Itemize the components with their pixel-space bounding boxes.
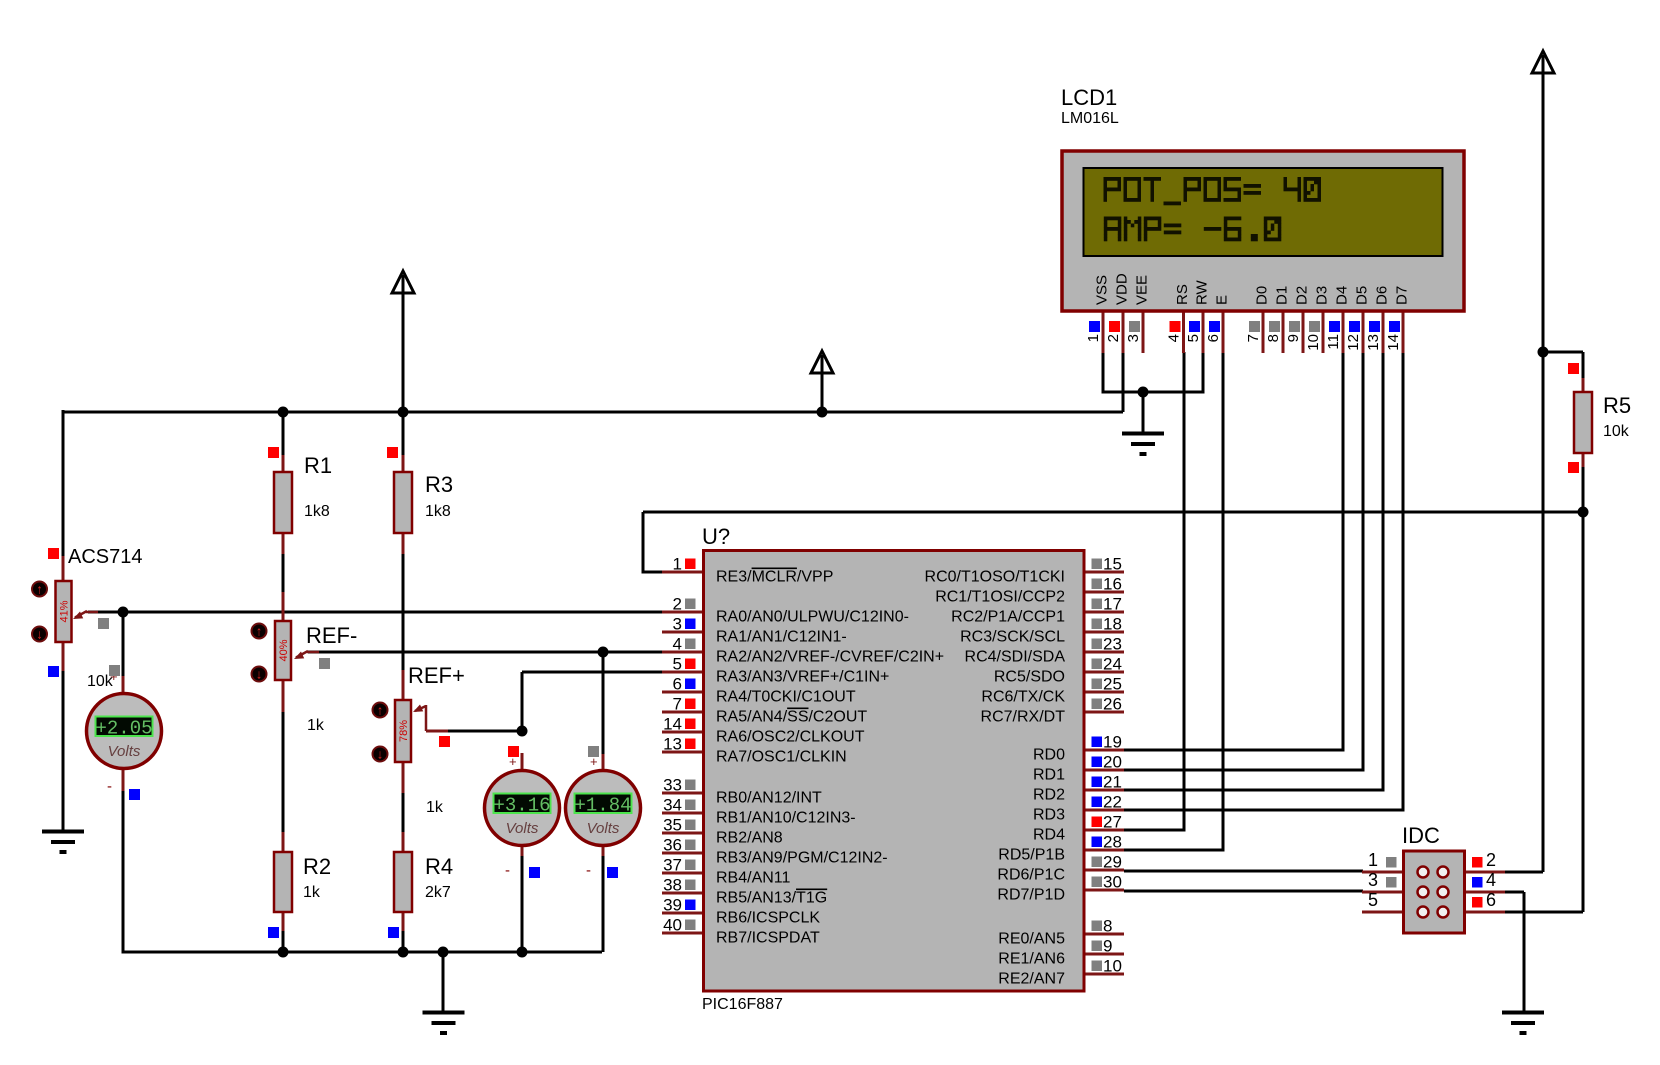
svg-text:10: 10 [1305,334,1322,351]
svg-text:-: - [505,862,510,879]
svg-text:15: 15 [1103,555,1122,574]
svg-text:36: 36 [663,836,682,855]
svg-text:PIC16F887: PIC16F887 [702,996,783,1013]
svg-text:4: 4 [1166,334,1183,342]
svg-text:E: E [1214,295,1231,305]
svg-text:24: 24 [1103,655,1122,674]
svg-text:Volts: Volts [506,820,539,837]
svg-text:5: 5 [673,655,682,674]
svg-text:22: 22 [1103,793,1122,812]
svg-text:3: 3 [1125,334,1142,342]
svg-text:IDC: IDC [1402,823,1440,848]
svg-text:1: 1 [1085,334,1102,342]
svg-text:30: 30 [1103,873,1122,892]
svg-text:23: 23 [1103,635,1122,654]
svg-text:RC7/RX/DT: RC7/RX/DT [981,709,1066,726]
svg-text:1: 1 [1368,850,1378,870]
svg-text:RD1: RD1 [1033,767,1065,784]
svg-text:10k: 10k [1603,423,1630,440]
svg-text:D2: D2 [1294,286,1311,305]
svg-text:41%: 41% [59,600,71,622]
svg-text:14: 14 [1385,334,1402,351]
svg-text:D6: D6 [1374,286,1391,305]
svg-text:RC3/SCK/SCL: RC3/SCK/SCL [960,629,1065,646]
svg-text:27: 27 [1103,813,1122,832]
svg-text:14: 14 [663,715,682,734]
svg-text:39: 39 [663,896,682,915]
svg-text:RA7/OSC1/CLKIN: RA7/OSC1/CLKIN [716,749,847,766]
svg-text:U?: U? [702,524,730,549]
svg-text:25: 25 [1103,675,1122,694]
svg-text:21: 21 [1103,773,1122,792]
svg-text:2: 2 [1105,334,1122,342]
svg-text:8: 8 [1265,334,1282,342]
svg-text:26: 26 [1103,695,1122,714]
svg-text:35: 35 [663,816,682,835]
svg-text:RB6/ICSPCLK: RB6/ICSPCLK [716,910,820,927]
svg-text:RA0/AN0/ULPWU/C12IN0-: RA0/AN0/ULPWU/C12IN0- [716,609,909,626]
svg-text:RC4/SDI/SDA: RC4/SDI/SDA [965,649,1066,666]
svg-text:RC6/TX/CK: RC6/TX/CK [981,689,1065,706]
svg-text:19: 19 [1103,733,1122,752]
svg-text:R1: R1 [304,453,332,478]
svg-text:RD3: RD3 [1033,807,1065,824]
svg-text:20: 20 [1103,753,1122,772]
svg-text:↑: ↑ [256,624,263,639]
svg-text:RC2/P1A/CCP1: RC2/P1A/CCP1 [951,609,1065,626]
svg-text:40%: 40% [278,639,290,661]
svg-text:R5: R5 [1603,393,1631,418]
svg-text:RD7/P1D: RD7/P1D [997,887,1065,904]
svg-text:1k: 1k [303,884,321,901]
svg-text:RA3/AN3/VREF+/C1IN+: RA3/AN3/VREF+/C1IN+ [716,669,889,686]
svg-text:Volts: Volts [587,820,620,837]
svg-text:1: 1 [673,555,682,574]
svg-text:7: 7 [673,695,682,714]
svg-text:10: 10 [1103,957,1122,976]
svg-text:2: 2 [673,595,682,614]
svg-text:3: 3 [1368,870,1378,890]
svg-text:+3.16: +3.16 [493,795,550,817]
svg-text:40: 40 [663,916,682,935]
svg-text:VSS: VSS [1094,275,1111,305]
svg-text:RB2/AN8: RB2/AN8 [716,830,783,847]
svg-text:6: 6 [1205,334,1222,342]
svg-text:29: 29 [1103,853,1122,872]
svg-text:17: 17 [1103,595,1122,614]
svg-text:↓: ↓ [377,747,384,762]
svg-text:VEE: VEE [1134,275,1151,305]
svg-text:D4: D4 [1334,286,1351,305]
svg-text:RA2/AN2/VREF-/CVREF/C2IN+: RA2/AN2/VREF-/CVREF/C2IN+ [716,649,944,666]
svg-text:4: 4 [1486,870,1496,890]
svg-text:↓: ↓ [36,627,43,642]
svg-text:RE2/AN7: RE2/AN7 [998,971,1065,988]
svg-text:ACS714: ACS714 [68,546,143,568]
svg-text:7: 7 [1245,334,1262,342]
svg-text:LM016L: LM016L [1061,110,1119,127]
svg-text:1k8: 1k8 [304,503,330,520]
svg-text:13: 13 [1365,334,1382,351]
svg-text:D5: D5 [1354,286,1371,305]
svg-text:D3: D3 [1314,286,1331,305]
svg-text:↑: ↑ [377,703,384,718]
svg-text:5: 5 [1185,334,1202,342]
svg-text:8: 8 [1103,917,1112,936]
svg-text:3: 3 [673,615,682,634]
svg-text:6: 6 [673,675,682,694]
svg-text:RA1/AN1/C12IN1-: RA1/AN1/C12IN1- [716,629,847,646]
svg-text:2: 2 [1486,850,1496,870]
svg-text:16: 16 [1103,575,1122,594]
svg-text:38: 38 [663,876,682,895]
svg-text:RB1/AN10/C12IN3-: RB1/AN10/C12IN3- [716,810,856,827]
svg-text:RD5/P1B: RD5/P1B [998,847,1065,864]
svg-text:13: 13 [663,735,682,754]
svg-text:-: - [107,778,112,795]
svg-text:RC1/T1OSI/CCP2: RC1/T1OSI/CCP2 [935,589,1065,606]
svg-text:28: 28 [1103,833,1122,852]
svg-text:D7: D7 [1394,286,1411,305]
svg-text:RA5/AN4/SS/C2OUT: RA5/AN4/SS/C2OUT [716,709,867,726]
svg-text:RW: RW [1194,279,1211,305]
svg-text:RD6/P1C: RD6/P1C [997,867,1065,884]
svg-text:18: 18 [1103,615,1122,634]
svg-text:RC5/SDO: RC5/SDO [994,669,1065,686]
svg-text:RC0/T1OSO/T1CKI: RC0/T1OSO/T1CKI [925,569,1065,586]
svg-text:R3: R3 [425,472,453,497]
svg-text:RB5/AN13/T1G: RB5/AN13/T1G [716,890,827,907]
svg-text:4: 4 [673,635,682,654]
svg-text:Volts: Volts [108,743,141,760]
svg-text:D0: D0 [1254,286,1271,305]
svg-text:RB0/AN12/INT: RB0/AN12/INT [716,790,822,807]
svg-text:RA4/T0CKI/C1OUT: RA4/T0CKI/C1OUT [716,689,856,706]
svg-text:1k: 1k [426,799,444,816]
svg-text:RE3/MCLR/VPP: RE3/MCLR/VPP [716,569,833,586]
svg-text:↓: ↓ [256,667,263,682]
svg-text:R4: R4 [425,854,453,879]
svg-text:34: 34 [663,796,682,815]
svg-text:37: 37 [663,856,682,875]
svg-text:REF-: REF- [306,623,357,648]
svg-text:RB4/AN11: RB4/AN11 [716,870,791,887]
svg-text:R2: R2 [303,854,331,879]
svg-text:33: 33 [663,776,682,795]
svg-text:-: - [586,862,591,879]
svg-text:RS: RS [1174,284,1191,305]
svg-text:VDD: VDD [1114,273,1131,305]
svg-text:9: 9 [1103,937,1112,956]
svg-text:1k8: 1k8 [425,503,451,520]
svg-text:RD0: RD0 [1033,747,1065,764]
svg-text:D1: D1 [1274,286,1291,305]
svg-text:2k7: 2k7 [425,884,451,901]
svg-text:1k: 1k [307,717,325,734]
svg-text:9: 9 [1285,334,1302,342]
svg-text:↑: ↑ [36,582,43,597]
svg-text:LCD1: LCD1 [1061,85,1117,110]
svg-text:RD2: RD2 [1033,787,1065,804]
svg-text:5: 5 [1368,890,1378,910]
svg-text:REF+: REF+ [408,663,465,688]
svg-text:RB7/ICSPDAT: RB7/ICSPDAT [716,930,820,947]
svg-text:+1.84: +1.84 [574,795,631,817]
svg-text:RD4: RD4 [1033,827,1065,844]
svg-text:RA6/OSC2/CLKOUT: RA6/OSC2/CLKOUT [716,729,865,746]
svg-text:RB3/AN9/PGM/C12IN2-: RB3/AN9/PGM/C12IN2- [716,850,888,867]
svg-text:11: 11 [1325,334,1342,350]
svg-text:RE1/AN6: RE1/AN6 [998,951,1065,968]
svg-text:RE0/AN5: RE0/AN5 [998,931,1065,948]
svg-text:12: 12 [1345,334,1362,351]
svg-text:6: 6 [1486,890,1496,910]
svg-text:+2.05: +2.05 [95,718,152,740]
svg-text:78%: 78% [398,720,410,742]
